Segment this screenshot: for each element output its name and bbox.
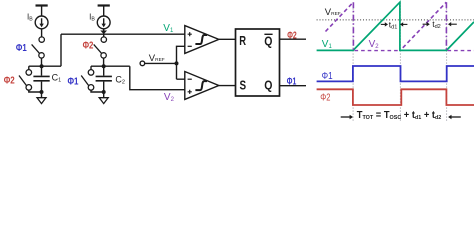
- current source I_B1: [35, 16, 48, 29]
- comparator U1: [185, 26, 219, 54]
- waveform V2 fall a (purple dash-dot): [352, 2, 354, 50]
- node 2 wire: [91, 65, 130, 67]
- capacitor C1: [33, 66, 49, 92]
- V1 riser wire: [60, 34, 62, 66]
- svg-text:R: R: [239, 33, 246, 48]
- supply bar branch 2: [98, 4, 110, 6]
- svg-text:Φ1: Φ1: [68, 76, 79, 87]
- supply bar branch 1: [36, 4, 48, 6]
- V_REF threshold dotted line: [317, 19, 474, 21]
- wire I_B2 down across V1 wire: [103, 29, 105, 37]
- svg-text:Φ1: Φ1: [322, 71, 333, 82]
- grey event guide line 3: [446, 3, 448, 123]
- waveform V2 bottom b (purple dashed): [448, 50, 474, 52]
- svg-text:Q: Q: [264, 34, 272, 49]
- grey event guide line 2: [399, 3, 401, 123]
- annotation t_d1: [381, 19, 408, 30]
- SR latch U3: [236, 29, 280, 96]
- svg-text:Φ2: Φ2: [287, 30, 297, 42]
- ground branch 2: [99, 92, 108, 104]
- switch PHI1 (discharge, branch 2): [81, 66, 104, 92]
- comparator U2: [185, 72, 219, 100]
- junction dot node 1: [40, 64, 44, 68]
- junction dot node 2: [102, 64, 106, 68]
- wire comparator U2 to latch S: [219, 85, 236, 87]
- junction dot ground node 1: [40, 90, 44, 94]
- current source I_B2: [97, 16, 110, 29]
- waveform V2 bottom a (purple dashed): [355, 50, 401, 52]
- svg-text:Φ2: Φ2: [320, 92, 331, 103]
- svg-text:Φ1: Φ1: [287, 76, 297, 88]
- wire latch Q output: [280, 85, 307, 87]
- junction dot V_REF: [175, 61, 179, 65]
- waveform PHI2 (red): [317, 89, 474, 105]
- svg-text:S: S: [240, 78, 247, 93]
- svg-text:Q: Q: [264, 78, 272, 93]
- capacitor C2: [96, 66, 112, 92]
- junction dot ground node 2: [102, 90, 106, 94]
- waveform V2 ramp a (purple dashed): [326, 2, 354, 31]
- ground branch 1: [37, 92, 46, 104]
- svg-text:Φ2: Φ2: [4, 76, 15, 87]
- V_REF rail to comparator minus inputs: [177, 46, 185, 79]
- label Qbar: [264, 34, 272, 49]
- wire comparator U1 to latch R: [219, 38, 236, 40]
- wire supply to current source I_B1: [41, 6, 43, 17]
- annotation t_d2: [423, 19, 457, 30]
- formula T_TOT annotation: [341, 110, 461, 121]
- node 1 wire: [29, 65, 61, 67]
- waveform PHI1 (blue): [317, 66, 474, 81]
- grey event guide line 1: [352, 3, 354, 123]
- V1 wire to comparator: [61, 33, 185, 35]
- V_REF input terminal: [140, 61, 145, 66]
- wire latch Qbar output: [280, 38, 307, 40]
- wire switch to node 1: [41, 58, 43, 66]
- arrow junction on V1 wire: [100, 31, 107, 35]
- wire supply to current source I_B2: [103, 6, 105, 17]
- wire switch to node 2: [103, 58, 105, 66]
- waveform V2 ramp b (purple dashed): [403, 2, 447, 48]
- switch PHI1 (charge, branch 1): [32, 37, 45, 58]
- svg-text:Φ1: Φ1: [16, 42, 27, 54]
- switch PHI2 (discharge, branch 1): [19, 66, 42, 92]
- switch PHI2 (charge, branch 2): [94, 37, 107, 58]
- waveform V1 (green solid): [317, 2, 474, 50]
- svg-text:Φ2: Φ2: [83, 40, 94, 52]
- V2 wire down and right to comparator: [130, 66, 185, 90]
- V_REF wire: [145, 62, 177, 64]
- waveform V2 fall b (purple dash-dot): [445, 2, 447, 50]
- wire I_B1 to switch: [41, 29, 43, 37]
